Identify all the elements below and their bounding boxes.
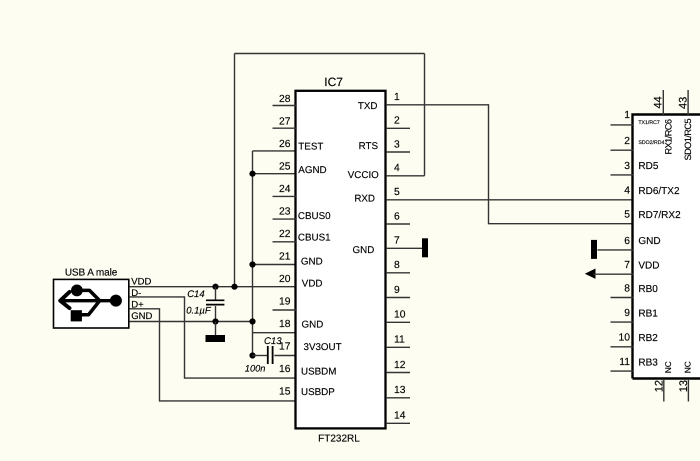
svg-text:22: 22 (279, 229, 291, 240)
wire VDD rail horizontal (235, 53, 425, 55)
svg-text:GND: GND (301, 256, 323, 267)
svg-text:14: 14 (394, 411, 406, 422)
junction C13 left (249, 352, 255, 358)
IC7 pin 6 stub (386, 223, 410, 225)
svg-text:18: 18 (279, 319, 291, 330)
svg-text:RB0: RB0 (638, 284, 658, 295)
junction USB GND (249, 318, 255, 324)
svg-text:SDO2/RD4: SDO2/RD4 (638, 140, 664, 146)
capacitor C13 right lead (274, 355, 296, 357)
svg-text:3V3OUT: 3V3OUT (304, 342, 342, 353)
wire D- from USB to pin 16 USBDM (129, 297, 296, 378)
svg-text:6: 6 (394, 211, 400, 222)
IC7 pin 10 stub (386, 321, 410, 323)
svg-text:RB2: RB2 (638, 333, 658, 344)
svg-text:2: 2 (394, 116, 400, 127)
wire GND from USB to GND net (129, 321, 252, 323)
wire pin 25 AGND to GND net (253, 173, 297, 175)
svg-text:RB1: RB1 (638, 308, 658, 319)
svg-text:RD6/TX2: RD6/TX2 (638, 186, 680, 197)
junction pin21 GND (249, 261, 255, 267)
svg-text:13: 13 (678, 380, 690, 392)
svg-text:GND: GND (131, 311, 152, 322)
svg-text:RX1/RC6: RX1/RC6 (664, 119, 674, 154)
svg-text:15: 15 (279, 386, 291, 397)
svg-text:NC: NC (663, 361, 673, 373)
svg-text:5: 5 (624, 210, 630, 221)
svg-text:USBDP: USBDP (301, 387, 335, 398)
svg-text:4: 4 (624, 186, 630, 197)
svg-text:CBUS0: CBUS0 (298, 211, 331, 222)
svg-text:C14: C14 (187, 289, 204, 300)
svg-text:28: 28 (279, 94, 291, 105)
wire pin 18 GND to GND net (253, 332, 297, 334)
MCU pin 13 stub (687, 379, 689, 402)
svg-text:3: 3 (394, 139, 400, 150)
svg-text:FT232RL: FT232RL (318, 434, 360, 445)
svg-text:6: 6 (624, 236, 630, 247)
MCU pin 1 stub (611, 124, 634, 126)
svg-text:11: 11 (394, 335, 405, 346)
IC IC7 FT232RL body (296, 91, 386, 429)
svg-text:12: 12 (653, 380, 665, 392)
svg-text:RXD: RXD (354, 194, 375, 205)
svg-text:12: 12 (394, 360, 406, 371)
svg-text:16: 16 (279, 364, 291, 375)
MCU pin 10 stub (611, 346, 634, 348)
MCU pin 2 stub (611, 149, 634, 151)
svg-text:RB3: RB3 (638, 357, 658, 368)
MCU pin 8 stub (611, 297, 634, 299)
svg-text:11: 11 (619, 357, 630, 368)
svg-text:TXD: TXD (358, 101, 378, 112)
svg-text:9: 9 (624, 308, 630, 319)
capacitor C13 plates (268, 346, 273, 364)
IC7 pin 11 stub (386, 346, 410, 348)
wire VDD rail left vertical down to VDD line (234, 54, 236, 287)
C14 ground lead (215, 322, 217, 336)
ground symbol (MCU pin6) (591, 240, 597, 259)
MCU pin 9 stub (611, 321, 634, 323)
svg-text:USBDM: USBDM (301, 367, 336, 378)
svg-text:19: 19 (279, 296, 291, 307)
svg-text:VDD: VDD (302, 279, 323, 290)
svg-text:2: 2 (624, 136, 630, 147)
MCU pin 43 stub (687, 90, 689, 115)
capacitor C14 top lead (215, 287, 217, 300)
junction AGND (249, 171, 255, 177)
svg-text:TEST: TEST (298, 142, 323, 153)
svg-text:AGND: AGND (298, 165, 326, 176)
wire pin 21 GND to GND net (253, 264, 297, 266)
IC MCU body fill (633, 115, 700, 379)
IC7 pin 3 stub (386, 151, 410, 153)
svg-text:3: 3 (624, 161, 630, 172)
MCU pin 3 stub (611, 174, 634, 176)
wire MCU pin 7 VDD (594, 273, 634, 275)
svg-text:GND: GND (302, 320, 324, 331)
svg-text:SDO1/RC5: SDO1/RC5 (683, 119, 693, 161)
IC7 pin 27 stub (273, 127, 297, 129)
MCU pin 44 stub (662, 90, 664, 115)
MCU pin 12 stub (663, 379, 665, 402)
wire MCU pin 6 GND (598, 249, 634, 251)
junction C14 bottom (212, 318, 218, 324)
junction C14 top (212, 284, 218, 290)
wire IC7 pin7 GND (386, 247, 423, 249)
svg-text:GND: GND (638, 236, 660, 247)
USB connector J1 body (54, 279, 129, 328)
svg-text:7: 7 (624, 260, 630, 271)
svg-text:VDD: VDD (131, 276, 151, 287)
svg-text:VDD: VDD (638, 261, 659, 272)
svg-text:43: 43 (677, 97, 689, 109)
junction VDD rail drop (231, 284, 237, 290)
svg-text:1: 1 (394, 92, 400, 103)
svg-text:100n: 100n (245, 364, 266, 374)
svg-text:CBUS1: CBUS1 (298, 232, 331, 243)
svg-text:5: 5 (394, 187, 400, 198)
wire VDD rail right vertical down to VCCIO pin 4 (424, 54, 426, 176)
svg-text:24: 24 (279, 184, 291, 195)
svg-text:20: 20 (279, 274, 291, 285)
svg-text:TX1/RC7: TX1/RC7 (638, 120, 659, 126)
wire pin 26 TEST to GND net (253, 150, 297, 152)
svg-text:17: 17 (279, 341, 291, 352)
svg-text:26: 26 (279, 139, 291, 150)
svg-text:13: 13 (394, 385, 406, 396)
svg-text:RD5: RD5 (638, 161, 658, 172)
svg-text:1: 1 (624, 110, 630, 121)
MCU pin 11 stub (611, 370, 634, 372)
svg-text:44: 44 (652, 96, 664, 108)
svg-text:0.1µF: 0.1µF (186, 305, 212, 316)
capacitor C14 plates (206, 300, 224, 304)
USB trident symbol (71, 285, 122, 322)
svg-text:4: 4 (394, 163, 400, 174)
IC7 pin 9 stub (386, 297, 410, 299)
svg-text:VCCIO: VCCIO (348, 170, 379, 181)
svg-text:8: 8 (624, 283, 630, 294)
IC7 pin 8 stub (386, 272, 410, 274)
IC7 pin 14 stub (386, 422, 410, 424)
wire VCCIO to rail (386, 175, 425, 177)
svg-text:NC: NC (682, 361, 692, 373)
IC7 pin 13 stub (386, 397, 410, 399)
IC7 pin 24 stub (273, 195, 297, 197)
ground symbol (IC7 pin7) (422, 238, 428, 257)
svg-text:27: 27 (279, 116, 291, 127)
svg-text:9: 9 (394, 285, 400, 296)
IC7 pin 23 stub (273, 218, 297, 220)
wire RXD to MCU RD6/TX2 (386, 199, 633, 201)
svg-text:7: 7 (394, 236, 400, 247)
wire VDD from USB to pin 20 (129, 286, 296, 288)
wire GND net vertical (252, 151, 254, 356)
svg-text:23: 23 (279, 206, 291, 217)
svg-text:RD7/RX2: RD7/RX2 (638, 210, 681, 221)
svg-text:USB A male: USB A male (65, 267, 118, 278)
IC7 pin 19 stub (273, 309, 297, 311)
svg-text:10: 10 (394, 310, 406, 321)
svg-text:21: 21 (279, 251, 291, 262)
IC7 pin 2 stub (386, 127, 410, 129)
svg-text:8: 8 (394, 260, 400, 271)
wire TXD to MCU RD7/RX2 (386, 105, 633, 224)
capacitor C13 left lead (253, 355, 268, 357)
svg-text:25: 25 (279, 161, 291, 172)
IC MCU body border (633, 115, 700, 379)
ground symbol (C14) (206, 335, 226, 342)
svg-text:RTS: RTS (359, 141, 379, 152)
svg-text:GND: GND (353, 245, 375, 256)
svg-text:10: 10 (619, 333, 631, 344)
svg-text:IC7: IC7 (324, 75, 343, 89)
VDD arrow (MCU pin7) (585, 269, 596, 279)
IC7 pin 28 stub (273, 105, 297, 107)
wire D+ from USB to pin 15 USBDP (129, 309, 296, 401)
capacitor C14 bottom lead (215, 306, 217, 322)
IC7 pin 12 stub (386, 372, 410, 374)
IC7 pin 22 stub (273, 241, 297, 243)
